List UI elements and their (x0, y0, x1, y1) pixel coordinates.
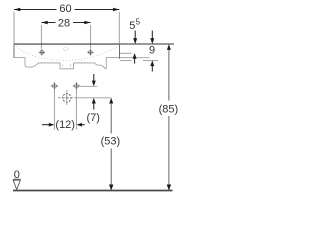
svg-text:(12): (12) (55, 119, 75, 131)
dimension (85) up arrow (167, 44, 171, 50)
svg-text:(7): (7) (86, 112, 99, 124)
svg-text:(53): (53) (101, 135, 121, 147)
dimension (53) line upper (110, 103, 112, 133)
dimension (53) up arrow (109, 98, 113, 104)
tap hole cross left (front view) (39, 49, 45, 55)
basin rim dotted curve (16, 46, 119, 60)
dimension 60 arrows (14, 8, 119, 12)
extension line supply right (75, 90, 77, 130)
dimension (53) line lower (110, 149, 112, 191)
dimension 9 up arrow (150, 60, 154, 66)
drain vertical centerline (66, 90, 68, 106)
svg-text:60: 60 (59, 3, 71, 15)
drain center ticks (66, 97, 69, 100)
dimension 5-5 down arrow (134, 31, 136, 40)
extension line 60 left (13, 12, 15, 44)
dimension 5-5 up arrow (133, 53, 137, 59)
reference line basin bottom extension (120, 57, 150, 59)
extension line 28 left (40, 25, 42, 49)
datum triangle (13, 180, 20, 189)
basin left edge (13, 44, 15, 58)
reference line tap level (120, 52, 132, 54)
trap cover rectangle (60, 63, 74, 69)
floor line (13, 190, 173, 192)
extension line 28 right (90, 25, 92, 49)
dimension (7) up arrow (92, 98, 96, 104)
reference line apron bottom left (120, 60, 132, 62)
supply level line (80, 85, 97, 87)
dimension 28 line (41, 22, 90, 24)
svg-text:5: 5 (129, 20, 135, 32)
dimension 9 down arrow (151, 31, 153, 40)
svg-text:28: 28 (58, 18, 70, 30)
datum underline (13, 178, 21, 180)
supply cross right (detail view) (73, 82, 80, 89)
dimension (53) down arrow (109, 185, 113, 191)
dimension (85) line lower (168, 116, 170, 190)
drain horizontal centerline (58, 97, 75, 99)
basin bottom middle-right segment (74, 62, 93, 64)
basin right edge (119, 44, 121, 59)
dimension (85) line upper (168, 50, 170, 101)
overflow oval (64, 47, 68, 51)
drain level line (75, 97, 111, 99)
reference line apron bottom right (143, 60, 158, 62)
svg-text:5: 5 (136, 18, 141, 27)
svg-text:9: 9 (149, 45, 155, 57)
dimension 28 arrows (41, 21, 90, 25)
supply cross left (detail view) (51, 82, 58, 89)
basin left foot (25, 58, 39, 68)
basin right foot (93, 58, 107, 69)
reference line A top edge extension (120, 43, 174, 45)
basin bottom right segment (106, 57, 119, 59)
dimension (12) right arrow (76, 123, 82, 127)
tap hole cross right (front view) (87, 49, 93, 55)
dimension (7) down arrow (93, 74, 95, 81)
drain circle dashed (63, 94, 71, 102)
svg-text:(85): (85) (159, 103, 179, 115)
basin bottom left segment (14, 57, 25, 59)
dimension 60 line (14, 9, 119, 11)
extension line 60 right (118, 12, 120, 44)
dimension (12) left arrow (42, 124, 50, 126)
trap cover ticks (63, 64, 71, 66)
dimension (85) down arrow (167, 185, 171, 191)
extension line supply left (53, 90, 55, 130)
basin bottom middle segment (39, 62, 60, 64)
basin top edge (14, 43, 121, 45)
